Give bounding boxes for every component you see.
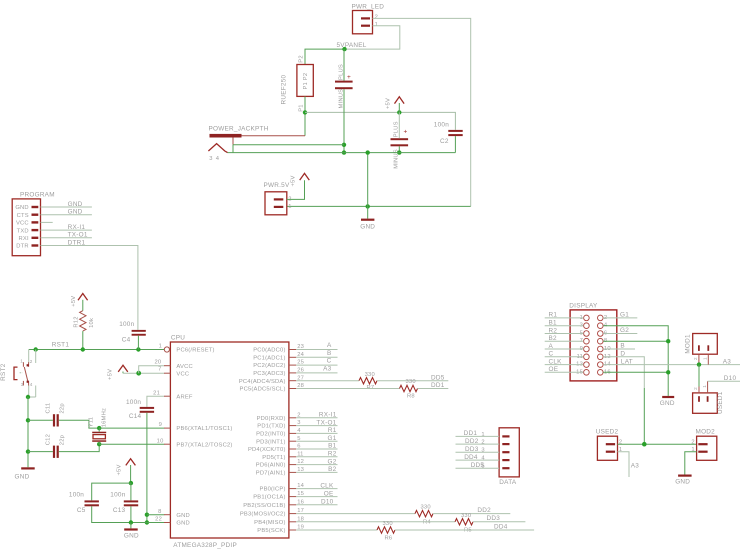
pin 5 PD3(INT1) [256,436,301,446]
svg-text:DD1: DD1 [431,382,445,389]
wire RX-I1 stub [41,229,92,231]
wire DISPLAY G2 [603,333,637,335]
svg-text:RST1: RST1 [52,341,70,348]
pin 17 PB3(MOSI/OC2) [240,508,304,518]
wire DISPLAY R2 [545,333,584,335]
pin 18 PB4(MISO) [254,516,304,526]
svg-text:USED1: USED1 [717,391,724,414]
wire DISPLAY pin4 to gnd [603,326,668,396]
connector PWR.5V [264,182,292,215]
svg-text:C12: C12 [46,434,52,445]
svg-text:PB3(MOSI/OC2): PB3(MOSI/OC2) [240,512,286,518]
svg-text:3: 3 [481,448,484,454]
connector POWER_JACKPTH [208,126,305,162]
svg-text:PC2(ADC2): PC2(ADC2) [253,363,285,369]
wire net A3 [296,372,337,374]
capacitor C12 22p [46,434,66,458]
svg-text:D10: D10 [724,375,737,382]
wire net B1 [296,448,337,450]
pin 21 AREF [153,391,193,401]
ground (decoupling) [124,523,139,540]
pin 19 PB5(SCK) [257,525,304,535]
wire gnd rail horizontal [228,152,456,154]
pin 23 PC0(ADC0) [253,344,304,354]
junction pin8 [145,513,149,517]
svg-text:R4: R4 [423,520,431,526]
svg-text:2: 2 [30,359,33,364]
junction RST1-switch [34,347,38,351]
wire VCC [123,372,164,374]
wire net G2 [296,464,337,466]
wire GND stub 2 [41,214,92,216]
svg-text:GND: GND [176,521,189,527]
wire R12 to RST1 [82,331,84,349]
resistor R4 330 [415,505,433,526]
svg-text:1: 1 [481,432,484,438]
wire GND stub [41,206,92,208]
svg-text:2: 2 [693,387,698,390]
svg-text:R2: R2 [549,327,558,334]
svg-text:OE: OE [549,366,559,373]
svg-text:PD4(XCK/T0): PD4(XCK/T0) [248,447,286,453]
wire to C12 [28,451,53,453]
svg-text:10: 10 [157,438,164,444]
junction C14 gnd [145,520,149,524]
svg-text:ATMEGA328P_PDIP: ATMEGA328P_PDIP [173,542,237,549]
svg-text:330: 330 [421,505,431,511]
svg-text:D10: D10 [321,499,334,506]
svg-text:PC1(ADC1): PC1(ADC1) [253,355,285,361]
pin 25 PC2(ADC2) [253,360,304,370]
svg-text:9: 9 [159,422,162,428]
svg-text:+5V: +5V [108,369,114,380]
svg-text:GND: GND [360,224,375,231]
power +5V (VCC) [108,365,128,380]
wire net B [296,356,337,358]
junction C12 [26,449,30,453]
svg-text:A3: A3 [631,462,640,469]
wire gnd horizontal (PWR.5V pin1) [287,205,471,207]
wire DISPLAY D down to USED2/MOD2 [603,357,644,388]
wire AREF to C14 [147,396,164,407]
svg-text:R1: R1 [549,312,558,319]
svg-text:4: 4 [30,382,33,387]
svg-text:R6: R6 [385,536,393,542]
svg-text:TXD: TXD [17,228,29,234]
svg-text:RUEF250: RUEF250 [281,74,288,104]
wire AVCC [139,366,165,374]
connector USED1 [693,381,724,414]
svg-text:PD0(RXD): PD0(RXD) [257,416,286,422]
wire TX-O1 stub [41,237,92,239]
svg-text:100n: 100n [110,492,125,499]
svg-text:7: 7 [158,366,161,372]
pin 6 PD4(XCK/T0) [248,444,301,454]
wire DISPLAY OE [545,371,584,373]
wire net CLK [296,488,337,490]
svg-text:8: 8 [158,509,161,515]
svg-text:PB1(OC1A): PB1(OC1A) [253,495,285,501]
svg-text:330: 330 [383,521,393,527]
connector MOD2 [691,428,716,460]
svg-text:3: 3 [21,382,24,387]
wire cap minus down [343,89,345,152]
wire pin27 to R7 [296,380,359,382]
svg-text:R1: R1 [328,427,337,434]
pin 3 PD1(TXD) [257,420,300,430]
wire MOD2 pin1 to gnd [685,452,697,475]
svg-text:22: 22 [155,517,162,523]
wire fuse P2 to 5VPANEL [305,49,345,64]
wire XTAL2 to CPU pin10 [99,443,164,445]
wire DISPLAY R1 [545,317,584,319]
wire 5VPANEL to cap plus [343,49,345,81]
wire pin19 to R6 [296,529,377,531]
wire jack stub down [232,145,234,153]
switch RST2 [0,350,36,398]
wire R4 to DD2 [433,513,510,515]
svg-text:C4: C4 [122,336,131,343]
capacitor C14 100n [126,399,154,420]
svg-text:PLUS: PLUS [394,121,400,137]
capacitor C2 100n [434,122,463,145]
junction gnd rail [342,150,346,154]
svg-text:100n: 100n [69,492,84,499]
junction D net [642,442,647,447]
svg-text:PB6(XTAL1/TOSC1): PB6(XTAL1/TOSC1) [176,426,232,432]
wire XTAL1 to CPU pin9 [99,427,164,429]
svg-text:PB5(SCK): PB5(SCK) [257,528,285,534]
junction crystal bottom [97,442,101,446]
svg-text:A: A [327,342,332,349]
svg-text:DISPLAY: DISPLAY [569,302,598,309]
svg-text:1: 1 [375,22,378,28]
svg-text:1: 1 [702,385,707,388]
svg-text:1: 1 [20,358,23,363]
svg-text:PC5(ADC5/SCL): PC5(ADC5/SCL) [240,387,286,393]
svg-text:B1: B1 [328,443,337,450]
svg-text:C14: C14 [129,413,142,420]
svg-text:G2: G2 [327,458,336,465]
svg-text:330: 330 [365,372,375,378]
wire RST1 rail [29,349,165,351]
wire net A [296,349,337,351]
pin 20 AVCC [154,360,192,370]
wire net G1 [296,440,337,442]
svg-text:10k: 10k [89,318,95,328]
junction gnd [366,204,370,208]
wire R5 to DD3 [473,521,525,523]
wire DISPLAY B [603,348,635,350]
junction fuse/+5V rail [303,110,307,114]
svg-text:G2: G2 [620,327,629,334]
pin 16 PB2(SS/OC1B) [243,499,304,509]
svg-text:PWR.5V: PWR.5V [264,182,290,189]
wire net D10 [296,504,337,506]
svg-text:DTR: DTR [16,244,29,250]
pin 4 PD2(INT0) [256,428,301,438]
wire net TX-O1 [296,425,337,427]
svg-text:GND: GND [176,513,189,519]
capacitor C5 100n [69,492,99,514]
svg-text:AREF: AREF [176,394,193,400]
svg-text:B2: B2 [328,466,337,473]
svg-text:+: + [404,128,408,135]
connector DATA [481,428,519,486]
svg-text:C5: C5 [77,507,86,514]
wire to C13 [130,483,132,500]
svg-text:PB2(SS/OC1B): PB2(SS/OC1B) [243,503,285,509]
resistor R8 330 [400,379,418,400]
wire USED2 pin1 A3 stub [618,452,630,477]
svg-text:330: 330 [406,379,416,385]
fuse RUEF250 [281,55,314,112]
svg-text:2: 2 [619,440,622,446]
svg-text:+5V: +5V [116,464,122,475]
wire C4 to RST1 [137,336,139,350]
pin 24 PC1(ADC1) [253,352,304,362]
wire ecap2 to gnd rail [398,146,400,152]
wire net B2 [296,471,337,473]
resistor R12 10k [74,311,95,331]
wire PWR_LED pin2 to GND rail [373,18,471,206]
wire net OE [296,496,337,498]
pin 8 GND [158,509,190,519]
junction ecap2 gnd [397,150,401,154]
svg-text:DD5: DD5 [471,462,485,469]
junction pin8 gnd [666,339,670,343]
wire DATA DD2 [456,443,500,445]
svg-text:5VPANEL: 5VPANEL [337,42,367,49]
wire C2 to gnd rail [454,136,456,153]
svg-text:22p: 22p [60,403,66,413]
junction crystal top [97,426,101,430]
svg-text:DATA: DATA [499,479,517,486]
svg-text:GND: GND [124,533,139,540]
junction AVCC/VCC [136,371,141,376]
svg-text:CTS: CTS [17,213,29,219]
svg-text:VCC: VCC [16,221,29,227]
svg-text:DD4: DD4 [464,454,478,461]
wire VCC stub [41,221,53,223]
svg-text:+5V: +5V [385,98,391,109]
svg-text:PB7(XTAL2/TOSC2): PB7(XTAL2/TOSC2) [176,442,232,448]
svg-text:RST2: RST2 [0,363,7,381]
ground (power section) [360,206,375,230]
svg-text:C: C [549,351,554,358]
wire DTR1 to C4 [41,246,138,330]
svg-text:2: 2 [375,15,378,21]
wire C13 to gnd rail [130,506,132,522]
svg-text:Y11: Y11 [88,417,94,427]
svg-text:PC3(ADC3): PC3(ADC3) [253,371,285,377]
pin 10 PB7(XTAL2/TOSC2) [157,438,233,448]
junction pin16 gnd [666,370,670,374]
power +5V (PWR.5V) [291,173,310,186]
wire LAT to USED1 [698,365,700,387]
wire PWR_LED pin1 to 5VPANEL [345,26,400,49]
pin 26 PC3(ADC3) [253,368,304,378]
connector DISPLAY [569,302,617,381]
svg-text:PB0(ICP): PB0(ICP) [260,487,286,493]
svg-text:TX-O1: TX-O1 [316,419,336,426]
wire net R1 [296,432,337,434]
svg-text:GND: GND [68,201,83,208]
pin 7 VCC [158,366,189,377]
pin 15 PB1(OC1A) [253,491,304,501]
wire C11 to crystal [59,420,99,428]
wire to C11 [28,419,53,421]
wire C12 to crystal bottom [59,444,99,451]
svg-text:1: 1 [159,344,162,350]
svg-text:16MHz: 16MHz [102,408,108,427]
pin 2 PD0(RXD) [257,412,301,422]
junction RST1-R12 [81,347,85,351]
pin 28 PC5(ADC5/SCL) [240,383,305,393]
svg-text:4: 4 [481,456,485,462]
svg-text:PLUS: PLUS [338,64,344,80]
svg-text:MINUS: MINUS [338,89,344,109]
ground (MOD2) [675,475,691,486]
junction switch-gnd [26,395,30,399]
svg-text:R2: R2 [328,451,337,458]
svg-text:PD1(TXD): PD1(TXD) [257,424,285,430]
svg-text:PD3(INT1): PD3(INT1) [256,439,286,445]
IC CPU ATMEGA328P_PDIP [170,335,289,549]
svg-text:DD5: DD5 [431,374,445,381]
svg-text:1: 1 [288,204,291,210]
svg-text:C2: C2 [440,138,449,145]
capacitor electrolytic 2 PLUS/MINUS [391,121,409,168]
svg-text:PB4(MISO): PB4(MISO) [254,520,285,526]
svg-text:330: 330 [461,513,471,519]
svg-text:G1: G1 [327,435,336,442]
svg-text:C13: C13 [113,507,126,514]
connector MOD1 [684,334,717,365]
wire DATA DD4 [456,459,500,461]
svg-text:100n: 100n [126,399,141,406]
wire jack pin to minus [233,144,344,146]
wire DISPLAY CLK [545,364,584,366]
svg-text:GND: GND [675,479,690,486]
svg-text:A3: A3 [723,358,732,365]
wire fuse P1 down [304,96,306,112]
wire C14 down to gnd rail [146,413,148,523]
wire pin18 to R5 [296,521,455,523]
wire net C [296,364,337,366]
svg-text:DD2: DD2 [477,507,491,514]
svg-text:B2: B2 [549,335,558,342]
wire net RX-I1 [296,417,337,419]
svg-text:MOD1: MOD1 [684,334,691,354]
svg-text:DD4: DD4 [494,523,508,530]
ground (crystal) [15,467,35,480]
wire +5V rail to C2 [305,112,455,129]
junction LAT-MOD1 [697,362,701,366]
svg-text:DD1: DD1 [464,430,478,437]
svg-text:MOD2: MOD2 [696,428,716,435]
svg-text:20: 20 [154,360,161,366]
wire fuse node to jack tip [304,112,306,135]
pin 22 GND [155,517,190,527]
svg-text:+5V: +5V [291,175,297,186]
wire DATA DD5 [456,467,500,469]
svg-text:4: 4 [216,156,220,162]
connector USED2 [596,428,623,460]
svg-text:P1 P2: P1 P2 [303,73,309,90]
svg-text:+5V: +5V [71,296,77,307]
svg-text:POWER_JACKPTH: POWER_JACKPTH [209,126,269,133]
capacitor C11 22p [46,403,66,427]
pin 27 PC4(ADC4/SDA) [239,375,304,385]
power +5V (C5/C13) [116,459,135,483]
svg-text:USED2: USED2 [596,428,619,435]
svg-text:1: 1 [703,357,708,360]
svg-text:DTR1: DTR1 [68,239,86,246]
junction gnd rail top [366,150,370,154]
wire DISPLAY pin16 to gnd [603,371,668,373]
svg-text:1: 1 [619,447,622,453]
wire DISPLAY A [545,348,584,350]
svg-text:PWR_LED: PWR_LED [352,4,385,11]
wire USED2 pin2 to MOD2 pin2 [618,443,697,445]
resistor R6 330 [377,521,395,542]
svg-text:3: 3 [209,156,212,162]
svg-text:TX-O1: TX-O1 [68,232,88,239]
svg-text:100n: 100n [119,321,134,328]
svg-text:VCC: VCC [176,371,189,377]
svg-text:RX-I1: RX-I1 [68,224,86,231]
wire DISPLAY G1 [603,317,637,319]
svg-text:D: D [620,351,625,358]
svg-text:PC6(/RESET): PC6(/RESET) [176,348,214,354]
power +5V (top) [385,97,404,113]
connector PROGRAM [12,191,55,255]
pin 12 PD6(AIN0) [256,459,304,469]
ground (display) [660,396,675,407]
wire pin28 to R8 [296,388,399,390]
svg-text:LAT: LAT [621,358,633,365]
svg-text:R12: R12 [74,316,80,327]
svg-text:P1: P1 [298,104,304,112]
svg-text:PC0(ADC0): PC0(ADC0) [253,348,285,354]
wire DATA DD1 [456,435,500,437]
wire to C5 [92,483,131,500]
svg-text:22p: 22p [60,435,66,445]
svg-text:DD3: DD3 [465,446,479,453]
svg-text:2: 2 [481,440,484,446]
svg-text:A: A [549,343,554,350]
capacitor C13 100n [110,492,138,515]
svg-text:AVCC: AVCC [176,364,192,370]
svg-text:G1: G1 [620,312,629,319]
wire D10 [708,380,740,382]
svg-text:R8: R8 [407,394,415,400]
svg-text:C: C [327,358,332,365]
svg-text:RXI: RXI [19,236,29,242]
svg-text:DD3: DD3 [487,515,501,522]
connector PWR_LED [352,4,385,34]
pin 13 PD7(AIN1) [256,467,304,477]
svg-text:OE: OE [324,490,334,497]
svg-text:PROGRAM: PROGRAM [20,191,55,198]
capacitor electrolytic PLUS/MINUS (panel) [335,64,353,108]
wire +5V to ecap2 [398,112,400,138]
wire DISPLAY LAT to MOD1 and A3 [603,364,740,366]
svg-text:PD2(INT0): PD2(INT0) [256,432,286,438]
wire net R2 [296,456,337,458]
pin 1 PC6(/RESET) bubble [159,344,215,354]
